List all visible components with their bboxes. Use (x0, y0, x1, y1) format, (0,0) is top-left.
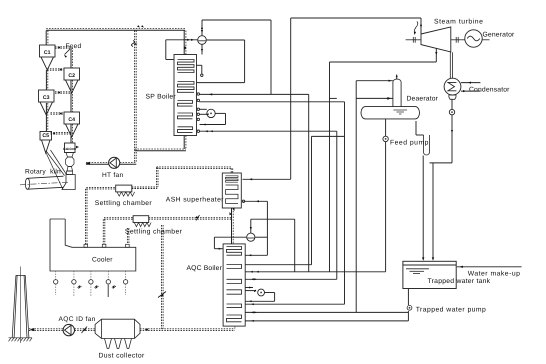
wire duct C1 dip to C2 (47, 69, 64, 71)
label SP Boiler (146, 94, 177, 101)
label Condensator (469, 86, 510, 93)
wire condensate line (430, 99, 454, 163)
SP steam drum (198, 36, 207, 45)
dust collector hoppers (105, 339, 132, 349)
wire chamber2 to cooler (103, 219, 105, 244)
flow marker bypass (158, 292, 166, 298)
wire trapped water supply (245, 311, 408, 313)
wire chamber2 inlet (104, 218, 133, 220)
wire fan to stack (29, 329, 63, 331)
svg-text:Settling chamber: Settling chamber (125, 228, 183, 235)
AQC boiler shell (223, 244, 245, 326)
AQC coil 2 (227, 265, 242, 269)
deaerator drum (361, 107, 420, 119)
AQC coil 4 (227, 290, 242, 294)
wire AQC drum left loop (214, 237, 246, 250)
stack (12, 267, 29, 344)
wire AQC header 279 (245, 131, 337, 280)
SP coil 4 (178, 113, 193, 119)
wire AQC drum right loop (245, 201, 267, 256)
wire AQC header 304 (245, 303, 344, 305)
cooler inlet stub 1 (84, 244, 88, 247)
ASH coil dense (226, 176, 239, 182)
label Trapped water pump (416, 307, 487, 314)
AQC coil 3 (227, 279, 242, 283)
label HT fan (102, 172, 124, 179)
svg-text:Generator: Generator (483, 32, 516, 39)
wire SP aux stub (197, 65, 204, 76)
wire gas duct into SP boiler top (184, 31, 186, 56)
wire feed pump line (385, 119, 387, 272)
wire SP economizer link (200, 130, 337, 132)
cyclone C2 (64, 68, 80, 93)
cyclone C1 (40, 45, 56, 70)
label Feed pump (390, 139, 429, 146)
cyclone C5 (40, 132, 52, 154)
wire chamber2 outlet (149, 215, 232, 221)
svg-text:C4: C4 (68, 117, 75, 123)
cooler inlet stub 2 (102, 244, 106, 247)
trapped water tank (403, 261, 456, 288)
svg-text:C1: C1 (44, 50, 51, 56)
wire SP pump loop (200, 109, 226, 125)
kiln hood (62, 175, 75, 190)
svg-text:Condensator: Condensator (469, 86, 510, 93)
wire riser C4 to C2 (71, 80, 72, 112)
svg-text:Feed pump: Feed pump (390, 139, 429, 146)
condensate U seal (416, 121, 430, 155)
svg-text:Water make-up: Water make-up (468, 271, 521, 278)
SP coil 5 (178, 127, 193, 133)
label AQC Boiler (187, 265, 223, 272)
svg-text:Steam turbine: Steam turbine (434, 19, 483, 26)
wire SP exit duct horizontal (135, 149, 186, 151)
wire kiln feed chutes (45, 150, 67, 189)
condenser hotwell (449, 95, 456, 99)
wire extraction vertical (329, 62, 331, 272)
node SP outlet circles (197, 93, 199, 133)
wire AQC gas outlet duct (30, 326, 235, 331)
wire drum right loop (197, 40, 245, 83)
svg-text:Cooler: Cooler (92, 256, 113, 263)
settling chamber 2 (133, 216, 151, 227)
wire turbine inlet (414, 18, 422, 35)
label Water make-up (468, 271, 521, 278)
wire AQC drum feed (250, 219, 295, 272)
svg-text:SP Boiler: SP Boiler (146, 94, 177, 101)
wire AQC stub 287 (245, 287, 253, 289)
wire tank to pump (407, 289, 409, 321)
label Trapped water tank (428, 278, 491, 285)
turbine shaft (406, 39, 490, 41)
wire gas bypass duct vertical (135, 31, 137, 163)
calciner (63, 143, 79, 175)
wire gas duct C1 top riser (46, 31, 48, 46)
wire duct C3 to C4 (51, 113, 65, 115)
dust collector (95, 319, 140, 338)
AQC ID fan (63, 324, 74, 335)
cooler fan 4 (106, 271, 116, 297)
coupling marks (413, 37, 458, 43)
wire HT fan outlet (86, 162, 110, 165)
wire SP boiler exit duct down (184, 136, 186, 150)
SP boiler shell (174, 55, 197, 136)
wire AQC pump loop (245, 290, 274, 303)
trapped water pump (407, 305, 412, 310)
AQC coil 5 (227, 304, 242, 308)
wire chamber1 to cooler (86, 189, 88, 244)
svg-text:ASH superheater: ASH superheater (166, 196, 224, 203)
SP coil 2 (178, 82, 195, 93)
label Settling chamber 1 (95, 200, 153, 207)
svg-text:Trapped water tank: Trapped water tank (428, 278, 491, 285)
wire trapped water return (245, 320, 408, 322)
wire duct C4 to C5 (51, 133, 72, 135)
label Rotary kiln (25, 169, 61, 176)
wire duct C2 to C1 (55, 47, 71, 49)
label Generator (483, 32, 516, 39)
label ASH superheater (166, 196, 224, 203)
svg-text:Calciner: Calciner (63, 147, 77, 151)
wire water makeup (457, 266, 522, 268)
wire ASH outlet steam (243, 18, 291, 180)
condensator (444, 78, 461, 95)
settling chamber 1 (116, 185, 135, 196)
junction marker on top header (137, 25, 144, 27)
svg-text:AQC ID fan: AQC ID fan (59, 316, 96, 323)
wire feedwater header 271 (245, 271, 385, 273)
feed pump (383, 136, 388, 141)
label AQC ID fan (59, 316, 96, 323)
wire deaerator inlet 1 (356, 80, 393, 82)
cooler shell (50, 219, 136, 271)
label Cooler (92, 256, 113, 263)
wire chamber1 outlet (132, 167, 233, 189)
SP drum downcomer left (166, 39, 198, 60)
damper before fan (82, 327, 88, 334)
svg-text:AQC Boiler: AQC Boiler (187, 265, 223, 272)
wire drain to tank 1 (422, 156, 424, 261)
SP circulating pump (207, 109, 215, 117)
deaerator vent (396, 75, 398, 80)
wire main steam to turbine (291, 17, 421, 19)
SP coil 3 (178, 101, 193, 107)
label Deaerator (407, 96, 439, 103)
wire cooling water (461, 82, 481, 93)
wire drum steam header (202, 20, 271, 94)
wire mid link 136 (312, 135, 345, 137)
wire duct C4 to C3 (55, 92, 71, 94)
svg-text:Settling chamber: Settling chamber (95, 200, 153, 207)
cyclone C3 (39, 90, 55, 115)
condensate pump (449, 109, 454, 114)
label Steam turbine (434, 19, 483, 26)
rotary kiln shell (20, 176, 68, 189)
damper S marker on bypass (132, 41, 138, 47)
wire riser C5 to C3 (46, 103, 47, 131)
label Feed (64, 43, 81, 58)
wire riser C3 to C1 (46, 70, 47, 90)
SP coil 1 (178, 60, 195, 73)
cooler fan 1 (54, 271, 58, 295)
svg-text:C2: C2 (68, 73, 75, 79)
wire chamber1 inlet (86, 187, 115, 189)
cooler inlet stub 3 (126, 244, 130, 247)
ASH superheater shell (222, 173, 241, 208)
AQC coil 1 (227, 247, 242, 256)
generator (465, 30, 482, 47)
svg-text:HT fan: HT fan (102, 172, 124, 179)
svg-text:Dust collector: Dust collector (99, 353, 145, 360)
svg-text:Trapped water pump: Trapped water pump (416, 307, 487, 314)
stack ground hatch (9, 338, 33, 342)
wire SP drum to boiler (201, 44, 203, 54)
wire deaerator inlet 2 (330, 97, 393, 99)
svg-text:C5: C5 (42, 133, 49, 139)
AQC circulating pump (258, 289, 265, 296)
deaerator head (393, 79, 401, 106)
wire deaerator riser (355, 81, 357, 313)
steam turbine (421, 27, 451, 52)
AQC coil 6 (227, 315, 242, 322)
HT fan (109, 157, 120, 168)
wire riser calciner to C4 (71, 124, 72, 143)
wire duct to HT fan (120, 163, 137, 165)
wire SP drum top (201, 20, 203, 36)
wire chamber bypass duct down (162, 225, 164, 329)
wire turbine exhaust (450, 52, 452, 78)
label Settling chamber 2 (125, 228, 183, 235)
label Dust collector (99, 353, 145, 360)
wire ASH gas down to AQC (230, 208, 235, 244)
wire chamber2 bypass down (127, 228, 128, 244)
cyclone C4 (64, 112, 80, 137)
wire ASH inlet steam (242, 200, 267, 202)
AQC steam drum (247, 233, 255, 241)
wire turbine extraction (330, 48, 438, 62)
wire gas duct top header (46, 29, 185, 31)
ASH coil (226, 185, 239, 203)
cooler fan 5 (123, 271, 127, 295)
svg-text:C3: C3 (43, 95, 50, 101)
cooler fan 2 (72, 271, 82, 296)
wire AQC header 264 (245, 136, 311, 264)
svg-text:Deaerator: Deaerator (407, 96, 439, 103)
wire duct C2 riser (71, 48, 72, 69)
wire drain to tank 2 (432, 163, 434, 261)
svg-text:Feed: Feed (66, 43, 82, 50)
wire SP steam line (200, 102, 345, 304)
wire feedwater to SP drum (200, 93, 309, 271)
cooler fan 3 (89, 271, 99, 296)
